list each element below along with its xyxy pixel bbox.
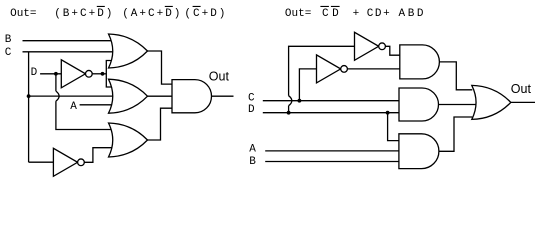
svg-text:(B+C+D): (B+C+D) (54, 8, 114, 20)
wire hop over C branch (56, 91, 59, 101)
wire A input to OR2 (80, 104, 114, 106)
svg-text:Out=: Out= (285, 8, 311, 20)
junction dot inverter U1 output node (101, 72, 105, 76)
input label A (right circuit) (249, 144, 256, 156)
svg-text:ABD: ABD (399, 8, 427, 20)
OR gate G1 (B+C+D-bar) (109, 34, 148, 68)
input label B (right circuit) (249, 156, 256, 168)
wire D to inverter U3 (lower vertical) (288, 106, 290, 113)
OR gate G3 (C-bar+D) (109, 123, 148, 157)
inverter U1 (D-bar, left circuit) (61, 60, 92, 88)
wire D input to AND6 (263, 112, 400, 114)
svg-text:CD: CD (322, 8, 342, 20)
input label A (left circuit) (70, 101, 77, 113)
AND gate G4 (3-input, left circuit output) (172, 80, 212, 113)
wire C to inverter U4 input (299, 69, 317, 101)
wire C input to AND6 (263, 100, 400, 102)
AND gate G5 (C-bar D-bar) (400, 45, 440, 79)
svg-text:+: + (353, 8, 360, 20)
overline over C in term CD (negated) (320, 6, 329, 7)
overline over D in term CD (negated) (331, 6, 340, 7)
svg-text:B: B (5, 34, 12, 46)
input label C (left circuit) (5, 47, 12, 59)
input label B (left circuit) (5, 34, 12, 46)
junction dot D node (54, 72, 58, 76)
wire AND1 output Out (212, 95, 234, 97)
wire D branch down to AND7 top input (388, 113, 400, 141)
wire hop over C line (289, 96, 292, 106)
inverter U4 (C-bar, right circuit) (317, 55, 348, 83)
svg-text:(A+C+D): (A+C+D) (122, 8, 182, 20)
svg-text:B: B (249, 156, 256, 168)
OR gate G2 (A+C+D-bar) (109, 79, 148, 113)
left equation text: Out= (B+C+D)(A+C+D)(C+D) (10, 8, 227, 20)
wire C to inverter U2 input (29, 161, 54, 163)
svg-text:Out: Out (511, 82, 532, 96)
wire OR2 output to AND1 middle input (148, 95, 173, 97)
svg-text:D: D (31, 67, 38, 79)
svg-text:A: A (249, 144, 256, 156)
wire inverter U1 output to node (92, 73, 106, 75)
OR gate G8 (right circuit output) (472, 85, 511, 119)
wire D-bar bracket to OR1 and OR2 inputs (106, 61, 113, 88)
junction dot D branch node (386, 111, 390, 115)
wire C branch to OR2 middle input (29, 95, 114, 97)
wire D input (40, 73, 62, 75)
svg-text:Out=: Out= (10, 8, 36, 20)
overline over C in term (C+D) (193, 6, 201, 7)
wire D vertical lower segment to OR3 top input (56, 101, 113, 129)
wire AND5 output to OR5 top input (439, 62, 472, 90)
wire inverter U4 output to AND5 bottom input (347, 68, 400, 70)
wire inverter U3 output to AND5 top input (385, 46, 400, 55)
wire D to inverter U3 input (289, 46, 355, 95)
svg-text:A: A (70, 101, 77, 113)
svg-text:D: D (248, 104, 255, 116)
wire AND6 output to OR5 middle input (439, 104, 478, 106)
wire AND7 output to OR5 bottom input (438, 117, 472, 151)
output label Out (right circuit) (511, 82, 532, 96)
overline over D in term (B+C+D) (97, 6, 105, 7)
output label Out (left circuit) (209, 70, 230, 84)
wire inverter U2 output to OR3 bottom input (84, 148, 113, 163)
input label D (left circuit) (31, 67, 38, 79)
wire B input to OR1 (23, 40, 114, 42)
svg-text:CD+: CD+ (367, 8, 392, 20)
AND gate G7 (ABD) (399, 134, 439, 169)
wire C vertical bus down to inverter U2 (28, 52, 30, 162)
wire A input to AND7 (265, 150, 399, 152)
wire C input to OR1 (23, 51, 114, 53)
wire OR3 output to AND1 bottom input (148, 108, 173, 140)
input label C (right circuit) (248, 93, 255, 105)
wire OR1 output to AND1 top input (148, 51, 173, 84)
svg-text:C: C (5, 47, 12, 59)
input label D (right circuit) (248, 104, 255, 116)
inverter U2 (C-bar, left circuit) (53, 148, 84, 176)
junction dot C to U4 node (298, 99, 302, 103)
wire B input to AND7 (265, 161, 399, 163)
right equation text: Out= CD + CD+ ABD (285, 8, 426, 20)
junction dot D to U3 node (287, 111, 291, 115)
AND gate G6 (CD) (399, 88, 439, 121)
wire D vertical upper segment (55, 74, 57, 91)
overline over D in term (A+C+D) (165, 6, 173, 7)
svg-text:Out: Out (209, 70, 230, 84)
wire OR5 output Out (510, 101, 535, 103)
inverter U3 (D-bar, right circuit) (355, 32, 386, 60)
junction dot C branch node (27, 94, 31, 98)
svg-text:(C+D): (C+D) (184, 8, 227, 20)
